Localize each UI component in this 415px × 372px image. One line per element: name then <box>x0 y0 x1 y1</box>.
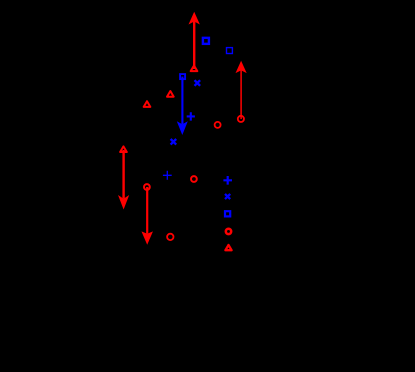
circle C4 <box>144 184 150 190</box>
arrow D red down shaft <box>146 187 148 234</box>
legend triangle <box>225 245 231 250</box>
triangle T3 <box>144 101 151 107</box>
arrow A red up shaft <box>193 22 195 70</box>
plus P1 <box>187 112 195 120</box>
legend x <box>225 194 230 199</box>
circle C5 <box>167 234 173 240</box>
triangle T1 <box>191 66 198 72</box>
legend plus <box>223 176 232 185</box>
blue arrow down shaft <box>181 77 183 125</box>
arrow C red down head <box>118 195 129 210</box>
plus P2 <box>163 171 172 180</box>
arrow B red up head <box>236 61 247 73</box>
triangle T2 <box>167 91 174 97</box>
arrow D red down head <box>141 231 153 244</box>
blue arrow down head <box>177 121 188 135</box>
circle C1 <box>238 116 244 122</box>
arrow B red up shaft <box>240 70 242 119</box>
triangle T4 <box>120 146 127 152</box>
legend circle <box>226 229 231 234</box>
circle C3 <box>191 176 197 182</box>
x X1 <box>195 80 201 86</box>
arrow A red up head <box>189 12 200 25</box>
legend square <box>225 211 230 216</box>
arrow C red down shaft <box>122 150 124 199</box>
square S2 <box>227 48 233 54</box>
x X2 <box>171 139 177 145</box>
square S1 <box>203 38 209 44</box>
square S3 <box>180 74 185 79</box>
circle C2 <box>215 122 221 128</box>
